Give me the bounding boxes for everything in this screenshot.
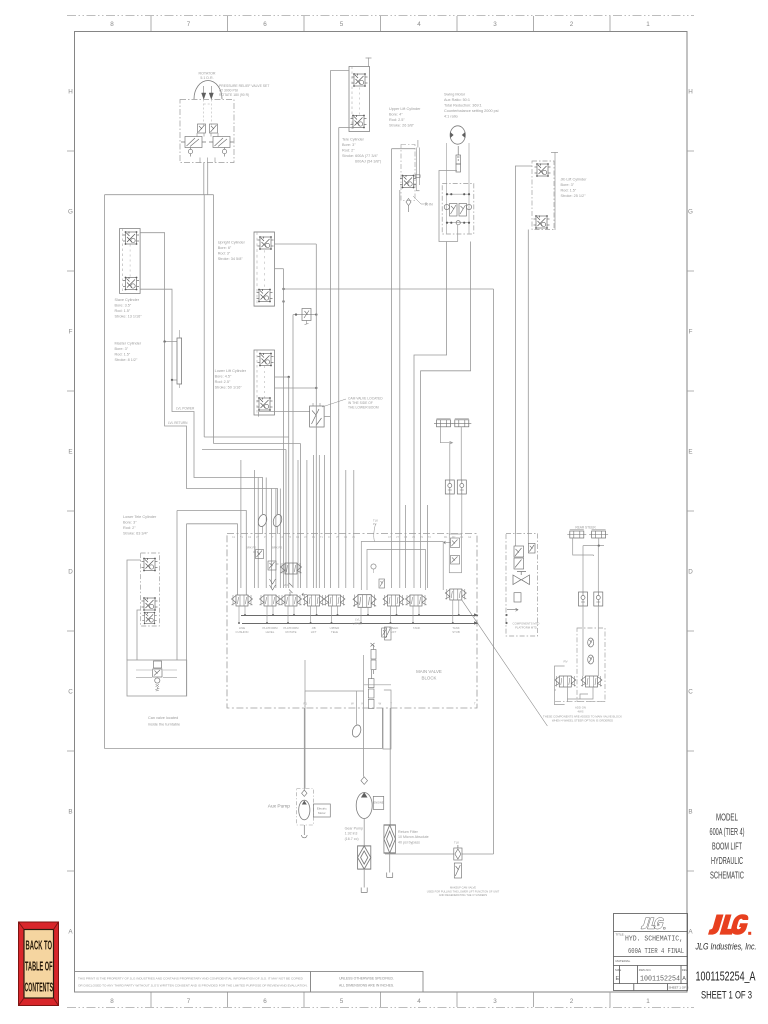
svg-text:SIZE: SIZE xyxy=(615,968,621,972)
steer drop left xyxy=(582,546,584,592)
swing center drop xyxy=(457,225,459,242)
nested box outer xyxy=(361,542,443,591)
svg-text:BOOM LIFT: BOOM LIFT xyxy=(712,842,742,853)
svg-text:6: 6 xyxy=(263,998,267,1005)
cam valve pointer xyxy=(322,399,346,407)
svg-text:AT 3000 PSI: AT 3000 PSI xyxy=(219,88,238,92)
upper lift cylinder label xyxy=(389,107,421,128)
gear pump triangle xyxy=(361,792,368,797)
svg-text:SHEET 1 OF 3: SHEET 1 OF 3 xyxy=(701,990,752,1002)
jib cylinder label xyxy=(561,178,588,199)
title block JLG logo (outline) xyxy=(641,918,665,930)
lower tele cylinder dashed box xyxy=(141,553,160,626)
rotator valve left xyxy=(181,124,206,157)
svg-text:5: 5 xyxy=(340,998,344,1005)
svg-text:UNLESS OTHERWISE SPECIFIED.: UNLESS OTHERWISE SPECIFIED. xyxy=(339,977,394,981)
svg-text:REV: REV xyxy=(682,968,688,972)
steer bracket xyxy=(555,666,565,705)
port labels on boundary xyxy=(232,536,472,539)
svg-text:Bore: 4": Bore: 4" xyxy=(389,113,403,117)
svg-text:Bore: 3.5": Bore: 3.5" xyxy=(115,304,132,308)
svg-text:Counterbalance setting 2000 ps: Counterbalance setting 2000 psi xyxy=(444,109,499,113)
steer check right xyxy=(594,592,603,606)
svg-text:H: H xyxy=(68,89,73,96)
wire rotator long drop B xyxy=(213,195,215,444)
wire lower lift bottom to cam valve xyxy=(259,411,310,413)
rear steer fitting right xyxy=(589,530,608,539)
makeup note xyxy=(427,886,500,898)
svg-text:Aux Ratio: 50:1: Aux Ratio: 50:1 xyxy=(444,98,470,102)
svg-text:HYDRAULIC: HYDRAULIC xyxy=(711,856,743,867)
svg-text:Bore: 3": Bore: 3" xyxy=(115,347,129,351)
arrow pair xyxy=(371,643,375,647)
svg-text:3: 3 xyxy=(493,21,497,28)
svg-text:Stroke: 34 5/8": Stroke: 34 5/8" xyxy=(218,257,244,261)
title block xyxy=(614,914,688,991)
lower lift top valve xyxy=(258,353,274,367)
upright cylinder top valve xyxy=(258,236,274,250)
lower lift cylinder body xyxy=(254,350,275,415)
svg-text:F: F xyxy=(69,329,73,336)
svg-text:Bore: 3": Bore: 3" xyxy=(561,183,575,187)
svg-text:1: 1 xyxy=(646,998,650,1005)
svg-text:MATERIAL: MATERIAL xyxy=(616,959,631,963)
svg-text:E: E xyxy=(68,449,72,456)
brake check valve left xyxy=(445,480,454,494)
junction dots left of box xyxy=(505,614,507,616)
aux pump diamond xyxy=(302,790,307,796)
gear pump suction xyxy=(363,819,365,847)
svg-text:D: D xyxy=(68,569,73,576)
red JLG corporate logo xyxy=(708,914,751,935)
steer cyl wire right xyxy=(583,538,604,546)
N2 feed line xyxy=(187,524,238,595)
wire jib bottom drop xyxy=(527,230,529,535)
slave cylinder body xyxy=(120,229,141,294)
wire rotator A to lower lift link xyxy=(204,436,289,438)
tele cylinder body xyxy=(349,67,370,132)
wire lower tele left bottom xyxy=(137,610,141,660)
left row ticks xyxy=(67,151,75,871)
svg-text:BRK PS: BRK PS xyxy=(246,546,256,550)
lower tele top valve xyxy=(142,558,158,572)
swing pilot valve left xyxy=(444,204,457,217)
outer dash-dot border top xyxy=(67,15,694,17)
aux pump triangle xyxy=(302,801,307,805)
svg-text:1.92 in3: 1.92 in3 xyxy=(345,832,358,836)
svg-text:Rod: 2": Rod: 2" xyxy=(123,526,136,530)
junction dots orifice xyxy=(295,313,297,315)
slave cylinder top valve xyxy=(123,231,139,245)
swing C frame xyxy=(439,171,458,242)
right group drops continue xyxy=(392,505,428,588)
cam valve xyxy=(310,403,325,427)
wire tele function B xyxy=(338,128,340,589)
svg-text:5: 5 xyxy=(340,21,344,28)
pr cluster xyxy=(385,627,392,640)
steer drops to reliefs xyxy=(583,606,598,676)
swing pilot valve right xyxy=(459,204,472,217)
junction xyxy=(598,545,600,547)
svg-text:THE LOWER BOOM: THE LOWER BOOM xyxy=(348,405,379,409)
svg-text:6: 6 xyxy=(263,21,267,28)
drop link B xyxy=(300,444,302,589)
suction strainer xyxy=(358,846,371,869)
can valve symbol xyxy=(153,661,162,691)
svg-text:MAIN VALVE: MAIN VALVE xyxy=(416,669,442,674)
gear pump circle xyxy=(356,793,372,819)
svg-text:W: W xyxy=(379,702,382,706)
junction at 283.5,301.5 xyxy=(282,300,284,302)
svg-text:H: H xyxy=(688,89,693,96)
steer valve left xyxy=(555,676,576,687)
svg-text:2: 2 xyxy=(570,998,574,1005)
slave cylinder label xyxy=(115,298,143,319)
svg-text:Rod: 3": Rod: 3" xyxy=(218,252,231,256)
upper lift check valve xyxy=(406,199,411,213)
svg-text:STUB: STUB xyxy=(452,630,460,634)
svg-text:Can valve located: Can valve located xyxy=(148,716,178,720)
svg-text:5.1 D.R.: 5.1 D.R. xyxy=(200,76,213,80)
svg-text:DWG NO.: DWG NO. xyxy=(639,968,652,972)
bottom ruler numbers xyxy=(110,998,650,1005)
brake fitting right xyxy=(452,418,471,427)
swing motor circle xyxy=(450,126,465,144)
svg-text:LVL RETURN: LVL RETURN xyxy=(168,421,188,425)
inner border rect xyxy=(75,32,688,993)
rotate valve stack xyxy=(514,546,524,569)
wire rotator B link xyxy=(214,443,301,445)
suction right drop to gear pump xyxy=(363,691,365,777)
svg-text:8: 8 xyxy=(110,21,114,28)
nested box inner xyxy=(367,550,426,591)
rotator manifold dashed box xyxy=(180,100,234,163)
svg-text:T: T xyxy=(474,702,476,706)
svg-text:Stroke: 26 3/8": Stroke: 26 3/8" xyxy=(389,124,415,128)
svg-text:Rod: 1.5": Rod: 1.5" xyxy=(115,353,131,357)
svg-text:Stroke: 8 1/2": Stroke: 8 1/2" xyxy=(115,358,139,362)
gauge B stem xyxy=(277,527,279,535)
drop link C xyxy=(285,450,287,589)
wire lower tele left top xyxy=(127,560,141,660)
small valve below xyxy=(451,556,460,565)
N1 feed line xyxy=(177,511,246,596)
right column components: gauge circle xyxy=(371,564,376,569)
svg-text:Stroke: 13 1/16": Stroke: 13 1/16" xyxy=(115,315,143,319)
svg-text:Swing Motor: Swing Motor xyxy=(444,93,466,97)
aux pump circle xyxy=(299,800,310,820)
svg-text:TABLE OF: TABLE OF xyxy=(25,960,53,974)
wire fitting left down xyxy=(449,443,451,480)
gear pump diamond xyxy=(361,777,368,785)
svg-text:ENGINE: ENGINE xyxy=(374,801,384,805)
svg-text:IN THE SIDE OF: IN THE SIDE OF xyxy=(348,401,373,405)
svg-text:B: B xyxy=(688,809,692,816)
swing shuttle stack xyxy=(456,146,461,172)
lower lift bottom valve xyxy=(257,397,273,411)
svg-text:7: 7 xyxy=(187,21,191,28)
svg-text:HYD. SCHEMATIC,: HYD. SCHEMATIC, xyxy=(625,936,683,944)
turntable big box top edge xyxy=(105,194,214,196)
swing shuttle ball xyxy=(456,221,460,225)
main relief RV xyxy=(382,628,387,637)
svg-text:Total Reduction: 369:1: Total Reduction: 369:1 xyxy=(444,104,482,108)
svg-text:SCHEMATIC: SCHEMATIC xyxy=(710,871,744,882)
turntable big box left edge xyxy=(104,195,106,749)
wire big box bottom right riser xyxy=(381,708,383,749)
svg-text:2:1: 2:1 xyxy=(284,583,288,587)
pressure gauge xyxy=(351,724,362,738)
svg-text:1001152254: 1001152254 xyxy=(640,976,680,984)
svg-text:CONTENTS: CONTENTS xyxy=(25,981,54,995)
wire upper lift valve drop xyxy=(399,190,401,534)
steer check left xyxy=(579,592,588,606)
svg-text:Motor: Motor xyxy=(318,811,326,815)
tele cylinder stub top xyxy=(366,58,372,67)
rotator valve right xyxy=(209,124,234,157)
svg-text:CUSHION: CUSHION xyxy=(236,630,249,634)
filter to tank xyxy=(389,853,391,873)
svg-text:C: C xyxy=(68,689,73,696)
engine box xyxy=(373,796,383,809)
svg-text:REAR STEER: REAR STEER xyxy=(575,526,596,530)
bus end arrows xyxy=(474,613,479,624)
long drop upright top xyxy=(315,244,317,588)
svg-text:ALL DIMENSIONS ARE IN INCHES.: ALL DIMENSIONS ARE IN INCHES. xyxy=(339,984,394,988)
wire rotator long drop A xyxy=(203,195,205,437)
suction header line xyxy=(305,690,364,692)
upper lift cylinder top line xyxy=(392,148,416,150)
svg-text:Tele Cylinder: Tele Cylinder xyxy=(342,138,365,142)
wire mid link c xyxy=(202,449,286,451)
steer drop right xyxy=(597,546,599,592)
svg-text:B: B xyxy=(68,809,72,816)
wire upper lift left drop xyxy=(391,149,393,534)
upper lift cylinder dashed body xyxy=(401,145,415,201)
bundle short drops xyxy=(241,455,354,588)
svg-text:LVL POWER: LVL POWER xyxy=(176,407,195,411)
wire tele function A xyxy=(329,71,331,589)
pilot valve b xyxy=(268,561,279,570)
svg-text:Slave Cylinder: Slave Cylinder xyxy=(115,298,140,302)
wire rotator to frame right xyxy=(207,163,209,195)
svg-text:600A (TIER 4): 600A (TIER 4) xyxy=(710,827,745,838)
svg-text:Electric: Electric xyxy=(317,807,327,811)
TLK pointer curve xyxy=(374,524,376,542)
svg-text:WHEN 4 WHEEL STEER OPTION IS O: WHEN 4 WHEEL STEER OPTION IS ORDERED xyxy=(552,718,613,722)
lower tele cylinder label xyxy=(123,515,157,536)
jib bottom valve xyxy=(534,215,550,229)
svg-text:inside the turntable: inside the turntable xyxy=(148,723,180,727)
platform rotate dashed box xyxy=(506,534,538,636)
relief b xyxy=(588,655,594,664)
electric motor box xyxy=(313,804,330,817)
aux line block to dash xyxy=(305,655,364,691)
swing ports bottom row xyxy=(447,222,469,224)
svg-text:W: W xyxy=(351,702,354,706)
svg-text:Rod: 2": Rod: 2" xyxy=(342,149,355,153)
top ruler numbers xyxy=(110,21,650,28)
return filter label xyxy=(398,830,429,844)
svg-text:Gear Pump: Gear Pump xyxy=(345,827,363,831)
relief a xyxy=(588,638,594,647)
svg-text:Bore: 3": Bore: 3" xyxy=(342,143,356,147)
junction xyxy=(315,387,317,389)
return filter drop xyxy=(389,708,391,825)
strainer to tank xyxy=(363,869,365,888)
svg-text:3: 3 xyxy=(493,998,497,1005)
wire lower lift mid port xyxy=(275,387,317,389)
drawing frame xyxy=(67,16,694,1008)
svg-text:MODEL: MODEL xyxy=(716,813,738,824)
relief valve small xyxy=(379,579,385,588)
svg-text:40 psi bypass: 40 psi bypass xyxy=(398,840,420,844)
svg-text:THIS PRINT IS THE PROPERTY OF: THIS PRINT IS THE PROPERTY OF JLG INDUST… xyxy=(78,977,304,981)
svg-text:LIFT: LIFT xyxy=(391,630,397,634)
svg-text:ROTATE 180 (90 R): ROTATE 180 (90 R) xyxy=(219,93,249,97)
lower tele bottom valve2 xyxy=(142,612,156,624)
lower lift cylinder label xyxy=(215,369,247,390)
jib cylinder right line xyxy=(551,152,558,230)
swing motor triangle left xyxy=(450,132,453,138)
steer lower links xyxy=(567,688,593,702)
can valve inner lines xyxy=(136,670,177,678)
steer relief dashed box xyxy=(577,628,605,702)
bottom ruler zone ticks xyxy=(151,992,610,1007)
bus junction dots xyxy=(238,614,460,624)
tank stub valve xyxy=(445,589,466,600)
orifice link xyxy=(293,314,316,316)
gauge A xyxy=(257,513,268,527)
svg-text:E: E xyxy=(616,976,620,982)
upper lift rod lines xyxy=(416,140,419,191)
2:1 symbols xyxy=(289,583,293,596)
right margin annotation: model text xyxy=(710,813,745,882)
junction master bottom xyxy=(171,379,173,381)
svg-text:Rod: 1.5": Rod: 1.5" xyxy=(115,309,131,313)
wire swing left drop xyxy=(414,242,447,535)
wire rotator to frame left xyxy=(203,163,205,195)
svg-text:10 Micron Absolute: 10 Micron Absolute xyxy=(398,835,429,839)
add-on dash boundary xyxy=(555,701,605,703)
master cylinder label xyxy=(115,342,142,363)
wire upper lift rod close xyxy=(416,190,419,192)
svg-text:G: G xyxy=(68,209,73,216)
svg-text:RV: RV xyxy=(564,660,568,664)
small valve top right xyxy=(444,538,460,548)
wire lower lift bottom stub xyxy=(258,412,260,417)
swing ports top row xyxy=(447,193,469,195)
svg-text:C: C xyxy=(688,689,693,696)
shuttle V pair xyxy=(270,579,276,590)
right row ticks xyxy=(687,151,694,871)
svg-text:7: 7 xyxy=(187,998,191,1005)
svg-text:TANK: TANK xyxy=(413,626,420,630)
svg-text:BACK TO: BACK TO xyxy=(26,939,53,953)
wire return drop right xyxy=(493,289,495,854)
svg-text:(16.7 cc): (16.7 cc) xyxy=(345,837,359,841)
aux pump dashed box xyxy=(297,789,314,826)
svg-text:TELE: TELE xyxy=(331,630,338,634)
brake check valve right xyxy=(457,480,466,494)
svg-text:Bore: 4.5": Bore: 4.5" xyxy=(215,375,232,379)
wire upright bottom long xyxy=(284,288,494,290)
svg-text:BLOCK: BLOCK xyxy=(422,676,437,681)
svg-text:D: D xyxy=(688,569,693,576)
upper lift pointer and note xyxy=(413,196,424,204)
rotator arrow left xyxy=(202,86,206,99)
upper lift holding valve xyxy=(400,175,416,189)
svg-text:MAKEUP CAM VALVE: MAKEUP CAM VALVE xyxy=(450,886,476,890)
wire tele left loop xyxy=(330,70,349,72)
svg-text:F: F xyxy=(689,329,693,336)
junction at 283.5,289 xyxy=(282,288,284,290)
svg-text:Stroke: 25 1/2": Stroke: 25 1/2" xyxy=(561,194,587,198)
lower tele bottom valve xyxy=(142,597,158,611)
cam valve note xyxy=(348,397,383,410)
svg-text:OR DISCLOSED TO ANY THIRD PART: OR DISCLOSED TO ANY THIRD PARTY WITHOUT … xyxy=(78,984,308,988)
svg-text:Bore: 6": Bore: 6" xyxy=(218,246,232,250)
svg-text:Upright Cylinder: Upright Cylinder xyxy=(218,241,246,245)
svg-text:2: 2 xyxy=(570,21,574,28)
bottom legal strip xyxy=(75,972,424,993)
brake fitting left xyxy=(434,418,453,427)
pilot valve a xyxy=(253,550,264,559)
svg-text:PRESSURE RELIEF VALVE SET: PRESSURE RELIEF VALVE SET xyxy=(219,84,269,88)
actuator arrow xyxy=(507,608,518,611)
turntable big box bottom edge xyxy=(105,748,383,750)
aux pump drain hook xyxy=(302,825,308,838)
svg-text:P1: P1 xyxy=(304,702,308,706)
svg-text:Lower Tele Cylinder: Lower Tele Cylinder xyxy=(123,515,157,519)
N2 left drop xyxy=(186,524,188,696)
tank below filter xyxy=(387,873,393,878)
swing valve dashed box xyxy=(442,184,474,235)
note pointer diagonal xyxy=(462,600,548,726)
svg-text:Rod: 2.5": Rod: 2.5" xyxy=(215,380,231,384)
outer dash-dot border bottom xyxy=(67,1007,694,1009)
aux feed from block xyxy=(303,708,305,790)
wire slave bottom to master xyxy=(140,289,177,380)
svg-text:P2: P2 xyxy=(373,522,377,526)
steer valve right xyxy=(581,676,602,687)
master cylinder piston line xyxy=(178,330,180,388)
junction xyxy=(288,376,290,378)
svg-text:600AJ (54 3/8"): 600AJ (54 3/8") xyxy=(355,160,382,164)
wire slave top to master xyxy=(140,233,177,342)
svg-text:Master Cylinder: Master Cylinder xyxy=(115,342,142,346)
svg-text:A: A xyxy=(682,976,686,982)
top ruler zone ticks xyxy=(151,16,610,31)
svg-text:4WS: 4WS xyxy=(577,709,583,713)
swing motor frame verticals xyxy=(447,143,470,234)
main valve block dashed boundary xyxy=(227,534,477,708)
bypass loop lines xyxy=(364,685,391,749)
return filter xyxy=(384,825,396,853)
svg-text:K: K xyxy=(362,702,364,706)
svg-text:ROTATE: ROTATE xyxy=(286,630,297,634)
rotator arch xyxy=(194,81,222,100)
svg-text:Jib Lift Cylinder: Jib Lift Cylinder xyxy=(561,178,588,182)
valve stems to bus xyxy=(239,600,459,623)
svg-text:SHEET 1 OF 3: SHEET 1 OF 3 xyxy=(669,986,689,990)
svg-text:TLK: TLK xyxy=(454,841,459,845)
svg-text:CAM VALVE LOCATED: CAM VALVE LOCATED xyxy=(348,397,383,401)
swing motor triangle right xyxy=(462,132,465,138)
can valve enclosure xyxy=(127,660,187,696)
left row letters xyxy=(68,89,73,936)
rotator note xyxy=(219,84,269,97)
